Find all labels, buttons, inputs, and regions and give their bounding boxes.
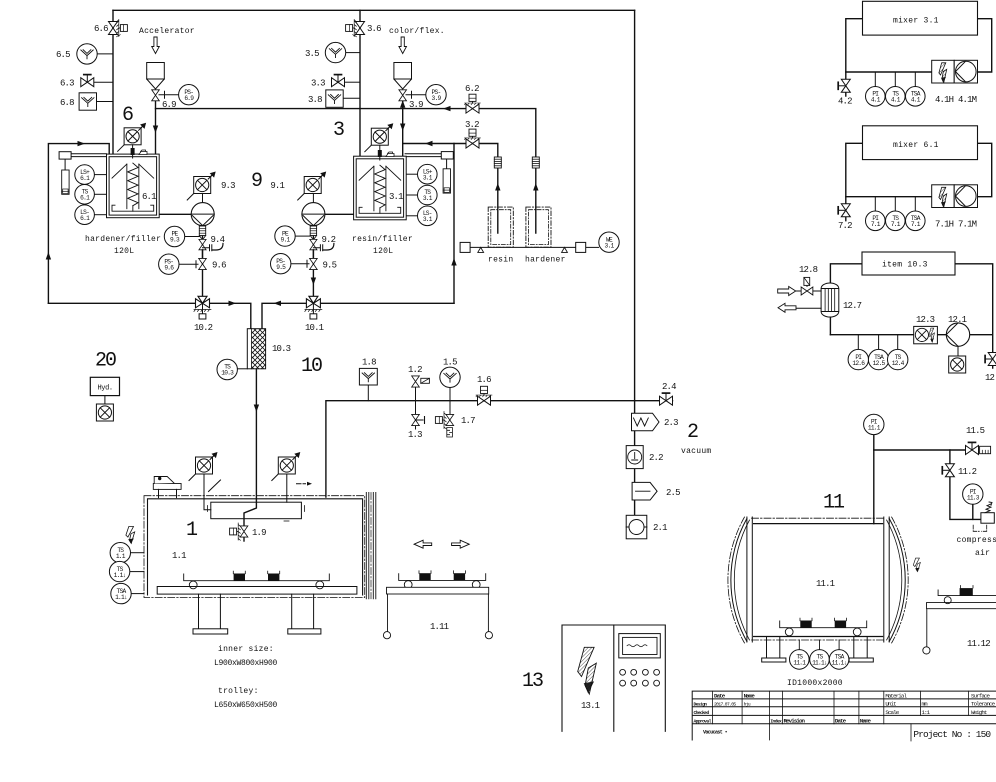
wire top header from valve 6.6 column to vacuum drop xyxy=(113,9,635,11)
svg-text:6.9: 6.9 xyxy=(184,95,194,102)
weigh pivot right xyxy=(562,247,568,252)
trolley 11.12 table xyxy=(927,603,996,647)
svg-text:3.9: 3.9 xyxy=(409,100,423,110)
mixer box mixer 6.1 xyxy=(863,126,978,160)
svg-text:L900xW800xH900: L900xW800xH900 xyxy=(214,659,278,668)
svg-text:Checked: Checked xyxy=(694,710,710,716)
instrument WE3.1 xyxy=(599,232,619,252)
svg-text:7.2: 7.2 xyxy=(838,221,852,231)
svg-text:9: 9 xyxy=(251,170,262,193)
instrument TS4.1 xyxy=(886,87,906,107)
cabinet 13 xyxy=(562,625,665,731)
svg-text:1.5: 1.5 xyxy=(443,358,457,368)
svg-text:11.1: 11.1 xyxy=(793,660,806,667)
lightning chamber xyxy=(126,527,135,544)
wire mixer3.1 PI4.1 stem xyxy=(874,72,876,86)
wire recirc riser right tank xyxy=(453,144,455,304)
wire TS1.1 tap xyxy=(130,552,144,554)
instrument PI4.1 xyxy=(866,87,886,107)
svg-text:12.4: 12.4 xyxy=(892,360,905,367)
wire tank 3.1 outlet to pump xyxy=(325,213,354,215)
arrow left to mixer xyxy=(274,301,282,306)
wire item10.3 loop right xyxy=(955,264,993,368)
resin drum xyxy=(488,207,513,247)
wire mixer6.1 TS7.1 stem xyxy=(894,197,896,211)
instrument PE9.1 xyxy=(275,226,295,246)
instrument LS-3.1 xyxy=(418,206,438,226)
instrument PI11.1 xyxy=(864,414,884,434)
pump outlet block right xyxy=(310,226,316,236)
wire LS+6.1 tap xyxy=(94,174,106,176)
arrow supply hollow xyxy=(778,287,796,296)
instrument TS10.3 xyxy=(217,359,237,379)
svg-text:1.6: 1.6 xyxy=(477,375,491,385)
svg-text:1.11: 1.11 xyxy=(430,622,449,632)
svg-text:3.5: 3.5 xyxy=(305,49,319,59)
svg-text:9.6: 9.6 xyxy=(212,261,226,271)
svg-text:1.1↓: 1.1↓ xyxy=(115,594,127,601)
svg-text:7.1: 7.1 xyxy=(911,221,921,228)
wire mixer3.1 loop left xyxy=(846,19,863,96)
box 3.8 xyxy=(326,90,343,107)
instrument PS-9.5 xyxy=(271,254,291,274)
chamber door xyxy=(366,493,376,599)
motor chamber left xyxy=(189,452,218,481)
heater 4.1H xyxy=(932,60,955,83)
svg-text:Name: Name xyxy=(860,718,872,725)
wire instrument 3.5 tap xyxy=(346,52,360,54)
mixer box mixer 3.1 xyxy=(863,1,978,35)
svg-text:1.8: 1.8 xyxy=(362,358,376,368)
svg-text:6.1: 6.1 xyxy=(80,175,90,182)
wire pump 12.1 motor stem xyxy=(957,346,959,355)
svg-text:6.2: 6.2 xyxy=(465,84,479,94)
wire TSA12.5 stem xyxy=(878,335,880,350)
wire pump 9.1 column down to valve 10.1 xyxy=(312,226,314,304)
svg-text:3.3: 3.3 xyxy=(311,79,325,89)
svg-text:6.1: 6.1 xyxy=(80,215,90,222)
svg-text:10.3: 10.3 xyxy=(221,370,234,377)
wire tank 6.1 outlet to pump xyxy=(159,213,192,215)
motor 9.1 xyxy=(298,172,327,201)
svg-text:vacuum: vacuum xyxy=(681,447,712,456)
valve 9.2 xyxy=(310,239,317,249)
arrow down above 10.1 xyxy=(311,278,316,286)
valve 10.2 xyxy=(194,296,211,319)
svg-text:Unit: Unit xyxy=(885,700,896,707)
valve 3.2 xyxy=(465,129,481,148)
svg-text:4.1H: 4.1H xyxy=(935,95,954,105)
wire mixer6.1 loop right xyxy=(978,143,992,196)
valve 1.2 with solenoid xyxy=(412,376,420,387)
instrument 6.5 xyxy=(56,44,97,64)
svg-text:2.3: 2.3 xyxy=(664,418,678,428)
svg-text:12.3: 12.3 xyxy=(916,315,935,325)
svg-text:6.8: 6.8 xyxy=(60,98,74,108)
svg-text:2.1: 2.1 xyxy=(653,523,667,533)
svg-text:1.1↓: 1.1↓ xyxy=(114,572,126,579)
wire PI12.6 stem xyxy=(857,335,859,350)
svg-text:resin/filler: resin/filler xyxy=(352,235,413,244)
svg-text:6.9: 6.9 xyxy=(162,100,176,110)
valve 9.6 xyxy=(199,258,207,269)
svg-text:Index: Index xyxy=(770,719,782,725)
wire accelerator fill line 6.9 down into tank 6.1 xyxy=(155,100,157,155)
wire static mixer outlet down into chamber manifold xyxy=(244,369,256,525)
valve 3.9 xyxy=(399,90,407,101)
weigh beam xyxy=(470,246,576,248)
svg-text:trolley:: trolley: xyxy=(218,687,259,696)
suction filter hardener xyxy=(532,157,539,168)
svg-text:3: 3 xyxy=(333,119,344,142)
wire gauge 1.5 drop and valve 1.7 xyxy=(449,388,451,414)
static mixer 10.3 xyxy=(247,329,265,369)
svg-text:6.1: 6.1 xyxy=(80,195,90,202)
wire TS12.4 stem xyxy=(897,335,899,350)
vessel tangent bars xyxy=(747,517,889,642)
dash arrow right motor xyxy=(297,483,306,485)
svg-text:9.3: 9.3 xyxy=(221,181,235,191)
instrument TS1.1L xyxy=(109,561,129,581)
instrument TS6.1 xyxy=(75,185,95,205)
svg-text:1.9: 1.9 xyxy=(252,528,266,538)
wire item10.3 loop left down to heat exchanger xyxy=(830,264,862,335)
wire valve 1.9 tail xyxy=(243,538,245,541)
valve 4.2 xyxy=(838,79,850,92)
arrow right to mixer xyxy=(229,301,237,306)
pump 3.1 side xyxy=(302,203,325,226)
wire hx supply line xyxy=(796,290,822,292)
svg-text:item 10.3: item 10.3 xyxy=(882,261,928,270)
arrow up resin suction xyxy=(495,183,500,191)
wire item10.3 loop bottom xyxy=(830,334,946,336)
chamber leg left xyxy=(199,594,221,629)
instrument TS7.1 xyxy=(886,211,906,231)
svg-text:9.5: 9.5 xyxy=(323,261,337,271)
title block xyxy=(692,691,996,741)
svg-text:6.3: 6.3 xyxy=(60,79,74,89)
wire PI11.3 drop xyxy=(972,504,974,519)
lightning 13.1 xyxy=(578,647,597,694)
vent widget tank 6.1 xyxy=(139,150,147,155)
wire level bridle 6.1 xyxy=(65,154,106,170)
wire instrument 6.5 tap xyxy=(97,53,113,55)
svg-text:11.1↓: 11.1↓ xyxy=(812,660,827,667)
instrument PI7.1 xyxy=(866,211,886,231)
svg-text:12.8: 12.8 xyxy=(799,265,818,275)
vessel leg right xyxy=(854,637,867,659)
trolley in chamber xyxy=(184,574,330,581)
svg-text:13: 13 xyxy=(522,670,543,693)
gauge 1.5 xyxy=(440,358,460,388)
manifold xyxy=(211,502,302,519)
svg-text:Revision: Revision xyxy=(784,718,806,725)
svg-text:3.1: 3.1 xyxy=(423,216,433,223)
wire mixer3.1 TS4.1 stem xyxy=(894,72,896,86)
wire TS6.1 tap xyxy=(94,193,106,195)
vent widget tank 3.1 xyxy=(386,152,394,157)
wire mixer6.1 loop bottom xyxy=(846,196,932,198)
wire motor 1 left stem xyxy=(204,474,211,510)
svg-text:11.2: 11.2 xyxy=(958,467,977,477)
svg-text:1.1: 1.1 xyxy=(116,553,126,560)
svg-text:3.8: 3.8 xyxy=(308,95,322,105)
svg-text:mixer 3.1: mixer 3.1 xyxy=(893,16,939,25)
valve 2.4 xyxy=(660,393,673,405)
svg-text:120L: 120L xyxy=(373,247,393,256)
svg-text:4.2: 4.2 xyxy=(838,96,852,106)
hopper 6.9 xyxy=(147,63,165,80)
wire mixer6.1 PI7.1 stem xyxy=(874,197,876,211)
valve 9.4 xyxy=(199,239,206,249)
svg-text:hju: hju xyxy=(744,701,751,707)
wire PS-9.6 tap xyxy=(179,261,198,268)
vacuum pump 2.1 xyxy=(626,515,647,539)
svg-text:11.1↓: 11.1↓ xyxy=(832,660,847,667)
instrument TSA4.1 xyxy=(906,87,926,107)
box 1.8 xyxy=(359,368,377,385)
tank 3.1 xyxy=(354,156,407,220)
wire hx return line xyxy=(796,307,821,309)
wire right column 3.6 down to tank 3.1 xyxy=(359,10,361,156)
wire Hyd unit stem xyxy=(104,396,106,404)
svg-text:air: air xyxy=(975,549,990,558)
svg-text:12.6: 12.6 xyxy=(852,360,865,367)
svg-text:Scale: Scale xyxy=(885,709,899,716)
gauge 2.2 xyxy=(626,446,643,469)
wire vacuum drop xyxy=(634,10,636,400)
svg-text:9.1: 9.1 xyxy=(270,181,284,191)
svg-text:6.5: 6.5 xyxy=(56,50,70,60)
Hyd motor xyxy=(96,404,113,421)
instrument PI11.3 xyxy=(963,484,983,504)
instrument TSA7.1 xyxy=(906,211,926,231)
instrument TS12.4 xyxy=(888,349,908,369)
chamber 1 shell xyxy=(148,499,363,595)
svg-text:11.5: 11.5 xyxy=(966,426,985,436)
valve 3.3 xyxy=(332,75,345,87)
valve 9.5 xyxy=(310,258,318,269)
wire mixer6.1 TSA7.1 stem xyxy=(914,197,916,211)
instrument 3.5 xyxy=(305,42,346,62)
valve 10.1 xyxy=(305,296,322,319)
valve 1.6 xyxy=(476,386,492,405)
motor chamber right xyxy=(272,452,301,481)
instrument TS11.1 xyxy=(799,640,839,649)
arrow up below valve 3.9 xyxy=(400,100,405,108)
wire valve 3.3 tap xyxy=(345,81,360,83)
instrument TS1.1 xyxy=(110,543,130,563)
agitator motor tank 3.1 xyxy=(365,123,394,152)
Hyd unit box xyxy=(90,377,119,395)
svg-text:2.2: 2.2 xyxy=(649,453,663,463)
svg-text:2.5: 2.5 xyxy=(666,488,680,498)
svg-text:compressed: compressed xyxy=(957,536,996,545)
svg-text:7.1: 7.1 xyxy=(871,221,881,228)
arrow left on recirc header xyxy=(425,141,433,146)
valve 6.9 xyxy=(152,90,160,101)
instrument TS11.1L xyxy=(810,650,830,670)
svg-text:1.3: 1.3 xyxy=(408,430,422,440)
arrow down fill 3.9 xyxy=(400,124,405,132)
dashed enclosure marks xyxy=(973,525,987,531)
svg-text:9.3: 9.3 xyxy=(170,237,180,244)
instrument TSA1.1L xyxy=(111,583,131,603)
wire box 3.8 tap xyxy=(343,97,360,99)
wire LS-3.1 tap xyxy=(405,215,418,217)
svg-text:Design: Design xyxy=(694,701,708,707)
instrument PS-3.9 xyxy=(426,85,446,105)
wire mixer3.1 loop bottom xyxy=(846,71,932,73)
svg-text:Material: Material xyxy=(885,692,907,699)
svg-text:1.1: 1.1 xyxy=(172,551,186,561)
svg-text:12.7: 12.7 xyxy=(843,301,862,311)
svg-text:Surface: Surface xyxy=(971,692,990,699)
svg-text:13.1: 13.1 xyxy=(581,701,600,711)
svg-text:2.4: 2.4 xyxy=(662,382,676,392)
arrow left on fill header xyxy=(443,106,451,111)
wire PE9.1 tap xyxy=(295,235,310,237)
svg-text:10.1: 10.1 xyxy=(305,323,324,333)
filter 2.3 xyxy=(632,413,660,431)
svg-text:7.1H: 7.1H xyxy=(935,219,954,229)
item 10.3 box xyxy=(862,252,955,275)
wire valve 1.2 drop and drain valve 1.3 xyxy=(415,388,417,429)
instrument PS-6.9 xyxy=(179,85,199,105)
wire mixer3.1 loop right xyxy=(978,19,992,72)
vessel right head xyxy=(889,519,905,642)
wire pump 9.3 column down to valve 10.2 xyxy=(202,226,204,304)
wire LS-6.1 tap xyxy=(94,214,106,216)
wire dosing header right y303.3 to static mixer xyxy=(262,303,454,328)
wire air header y450 xyxy=(874,449,966,451)
instrument TSA11.1L xyxy=(829,650,849,670)
svg-text:Project No : 150: Project No : 150 xyxy=(913,729,991,740)
svg-text:11.1: 11.1 xyxy=(868,425,881,432)
pump 6.1 side xyxy=(191,203,214,226)
svg-text:9.5: 9.5 xyxy=(276,264,286,271)
svg-text:11.3: 11.3 xyxy=(967,494,980,501)
drain valve 1.3 xyxy=(412,414,420,425)
vessel leg left xyxy=(767,637,780,659)
wire box 6.8 tap xyxy=(97,101,114,103)
instrument PE9.3 xyxy=(164,226,184,246)
svg-text:9.1: 9.1 xyxy=(281,236,291,243)
svg-text:4.1: 4.1 xyxy=(911,97,921,104)
svg-text:3.9: 3.9 xyxy=(432,95,442,102)
svg-text:6: 6 xyxy=(122,104,133,127)
svg-text:3.1: 3.1 xyxy=(389,192,403,202)
wire TSA1.1 tap xyxy=(131,593,144,595)
wire vacuum stack down to pump 2.1 xyxy=(634,401,636,516)
svg-text:12.: 12. xyxy=(985,373,996,383)
instrument PS-9.6 xyxy=(159,254,179,274)
svg-text:Date: Date xyxy=(714,692,726,699)
svg-text:4.1M: 4.1M xyxy=(958,95,977,105)
instrument LS+6.1 xyxy=(75,165,95,185)
instrument LS-6.1 xyxy=(75,205,95,225)
wire left column 6.6 down to tank 6.1 xyxy=(112,10,114,154)
valve 6.6 xyxy=(109,20,128,37)
wire fill header y108.6 from 6.9 to corner and down to hardener drum xyxy=(156,109,536,233)
valve 6.3 xyxy=(81,75,94,87)
wire PI11.1 drop and air line to vessel 11 xyxy=(873,434,875,523)
svg-text:Tolerance: Tolerance xyxy=(971,700,996,707)
weigh pivot left xyxy=(478,247,484,252)
wire weigh scale link to WE3.1 xyxy=(586,246,599,248)
arrow up recirc right xyxy=(451,258,456,266)
wire TS10.3 tap xyxy=(237,368,247,370)
wire LS+3.1 tap xyxy=(405,173,418,175)
suction filter resin xyxy=(494,157,501,168)
svg-text:inner size:: inner size: xyxy=(218,645,274,654)
level bridle tank 3.1 xyxy=(441,152,453,159)
arrow down mixer outlet xyxy=(254,405,259,413)
svg-text:3.1: 3.1 xyxy=(423,195,433,202)
svg-text:9.6: 9.6 xyxy=(164,264,174,271)
svg-text:11.12: 11.12 xyxy=(967,639,990,649)
instrument TS3.1 xyxy=(418,185,438,205)
valve 1.7 xyxy=(435,412,453,429)
svg-text:Hyd.: Hyd. xyxy=(98,385,113,393)
arrow right hollow xyxy=(452,540,470,548)
valve 6.2 xyxy=(465,94,481,113)
svg-text:hardener: hardener xyxy=(525,256,566,265)
svg-text:1.7: 1.7 xyxy=(461,416,475,426)
wire mixer3.1 TSA4.1 stem xyxy=(914,72,916,86)
valve 3.6 xyxy=(346,20,365,37)
svg-text:11.1: 11.1 xyxy=(816,579,835,589)
svg-text:resin: resin xyxy=(488,256,513,265)
hardener drum xyxy=(526,207,551,247)
svg-text:L650xW650xH500: L650xW650xH500 xyxy=(214,701,278,710)
heater box 12.3 xyxy=(914,326,938,343)
svg-text:4.1: 4.1 xyxy=(891,97,901,104)
instrument PI12.6 xyxy=(848,349,868,369)
svg-text:2: 2 xyxy=(687,421,698,444)
heater 7.1H xyxy=(932,185,955,208)
valve 12.2 xyxy=(985,353,996,366)
wire chamber vent line up and right y400.7 xyxy=(326,401,673,497)
lightning vessel xyxy=(913,558,920,572)
svg-text:1.2: 1.2 xyxy=(408,365,422,375)
svg-text:hardener/filler: hardener/filler xyxy=(85,235,161,244)
slash mark left motor xyxy=(209,480,221,492)
wire TS1.1b tap xyxy=(130,571,144,573)
svg-text:Vacucast •: Vacucast • xyxy=(703,730,728,736)
chamber 1 insulation boundary xyxy=(144,496,365,598)
display panel xyxy=(619,634,661,658)
wire PS-9.5 tap xyxy=(291,260,310,267)
trolley in vessel xyxy=(780,621,867,628)
wire recirc riser left tank with top run into tank 6.1 xyxy=(48,144,109,304)
svg-text:Name: Name xyxy=(744,692,756,699)
door latch widget xyxy=(153,484,181,490)
svg-text:Approval: Approval xyxy=(694,719,712,725)
box 6.8 xyxy=(79,93,96,110)
svg-text:20: 20 xyxy=(95,350,116,373)
wire valve 6.3 tap xyxy=(94,81,113,83)
chamber leg right xyxy=(292,594,314,629)
wire mixer6.1 loop left xyxy=(846,143,863,220)
valve 1.9 xyxy=(230,523,248,540)
vessel left head xyxy=(731,519,747,642)
svg-text:3.1: 3.1 xyxy=(423,174,433,181)
agitator motor tank 6.1 xyxy=(118,123,147,152)
svg-text:12.5: 12.5 xyxy=(873,360,886,367)
arrow up recirc left xyxy=(46,252,51,260)
svg-text:6.1: 6.1 xyxy=(142,192,156,202)
